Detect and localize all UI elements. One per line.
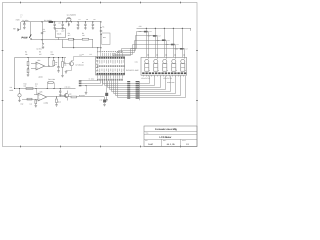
- wire digit4 select: [115, 45, 176, 59]
- wire digit4 common: [173, 28, 174, 29]
- wire digit2 common: [155, 28, 156, 29]
- U1 inner pin labels: [96, 60, 99, 63]
- capacitor C8: [92, 22, 94, 24]
- svg-text:4k7: 4k7: [176, 44, 178, 46]
- digit 2 segments: [154, 59, 158, 63]
- wire OSC2: [81, 80, 101, 83]
- wire digit5 select: [113, 49, 185, 59]
- wire segment h: [118, 76, 186, 98]
- svg-text:POW: POW: [22, 37, 29, 40]
- wire digit3 select: [117, 41, 167, 59]
- svg-text:4k7: 4k7: [149, 31, 151, 33]
- connector body: [139, 81, 141, 100]
- digit 4 segments: [172, 59, 176, 63]
- svg-text:9V: 9V: [20, 16, 22, 18]
- svg-text:4k7: 4k7: [185, 48, 187, 50]
- svg-text:4k7: 4k7: [167, 40, 169, 42]
- wire segment f: [114, 76, 176, 94]
- svg-text:R16: R16: [139, 31, 142, 33]
- resistor R12: [35, 98, 37, 101]
- svg-text:BT1: BT1: [20, 15, 23, 17]
- capacitor C4: [62, 22, 64, 24]
- reset block S2: [102, 33, 110, 45]
- wire feedback: [48, 58, 50, 67]
- resistor R8: [53, 61, 55, 66]
- connector J1 pin labels: [127, 81, 130, 82]
- svg-text:Fernvale Lines Mfg: Fernvale Lines Mfg: [155, 128, 177, 131]
- svg-text:Y1 4MHz: Y1 4MHz: [89, 79, 95, 81]
- svg-text:R18: R18: [157, 40, 160, 42]
- wire sensor to inverting input: [22, 99, 34, 101]
- U1 top pins: [97, 53, 99, 57]
- resistor R17: [153, 35, 157, 37]
- digit 5 segments: [181, 59, 185, 63]
- wire segment b: [105, 76, 155, 86]
- wire battery to rail: [19, 22, 21, 30]
- wire digit3 common: [164, 28, 165, 29]
- wire left drop: [14, 58, 16, 89]
- resistor R10: [26, 88, 33, 90]
- node +5V: [66, 21, 67, 22]
- svg-text:LCD Meter: LCD Meter: [160, 136, 172, 139]
- wire switch to lower rail: [31, 39, 56, 41]
- resistor R15: [71, 96, 77, 98]
- digit 3 segments: [163, 59, 167, 63]
- wire digit1 select: [122, 32, 149, 59]
- wire regulator gnd: [58, 38, 60, 40]
- wire segment d: [110, 76, 166, 90]
- svg-text:PIC16C71-04/P: PIC16C71-04/P: [126, 69, 139, 72]
- wire segment e: [112, 76, 171, 92]
- U1 bottom pins: [97, 75, 99, 78]
- wire OSC1: [81, 79, 98, 81]
- wire to C12: [77, 96, 105, 98]
- wire segment a: [103, 76, 150, 84]
- wire W3: [15, 88, 76, 90]
- wire segment c: [108, 76, 161, 88]
- wire ref to U1: [93, 47, 101, 49]
- wire divider: [56, 38, 69, 41]
- capacitor C13: [60, 89, 62, 92]
- resistor R6: [27, 62, 29, 66]
- op-amp U2A: [36, 62, 45, 70]
- capacitor C7: [85, 22, 87, 24]
- capacitor C13: [106, 75, 108, 93]
- U1 top pin name band: [97, 57, 99, 59]
- svg-text:Sheet: Sheet: [182, 140, 186, 142]
- wire analog rail W1: [15, 57, 67, 59]
- capacitor C6: [78, 22, 80, 24]
- svg-text:Size: Size: [145, 140, 148, 142]
- svg-text:R110: R110: [175, 48, 178, 50]
- resistor R19: [171, 44, 175, 46]
- wire digit5 common: [182, 28, 183, 29]
- wire op-amp out: [45, 66, 54, 68]
- svg-text:U1: U1: [90, 53, 92, 56]
- voltage regulator U3 78L05: [56, 29, 66, 38]
- resistor R11 feedback loop: [48, 82, 53, 84]
- sheet border frame: [3, 3, 198, 147]
- wire U2B out: [47, 96, 71, 98]
- connector J2 pin labels: [136, 81, 140, 82]
- microcontroller U1: [96, 57, 125, 76]
- title block: [144, 126, 197, 147]
- sensor U4 LM35: [14, 88, 15, 89]
- U1 left pin labels: [96, 57, 98, 58]
- svg-text:Draft: Draft: [148, 143, 153, 146]
- transistor Q6: [64, 93, 68, 97]
- wire segment g: [116, 76, 181, 96]
- wire +9V top rail: [21, 21, 101, 23]
- resistor R16: [144, 31, 148, 33]
- resistor R9: [62, 58, 64, 62]
- capacitor C3: [54, 22, 56, 24]
- wire to U2B input: [36, 89, 38, 95]
- U1 middle pin number row: [97, 65, 99, 67]
- resistor R18: [162, 39, 166, 41]
- digit 1 segments: [145, 59, 149, 63]
- wire AN1: [81, 80, 103, 85]
- wire digit1 common: [146, 28, 147, 29]
- resistor R7: [27, 69, 29, 73]
- wire digit2 select: [119, 36, 158, 59]
- zener D2: [42, 40, 44, 43]
- +5V rail for drivers: [137, 28, 192, 30]
- display bottom pins: [143, 75, 145, 76]
- wire ref: [62, 40, 64, 48]
- display module DS1: [141, 57, 187, 75]
- U1 bottom pin name band: [97, 73, 99, 75]
- display pin name row: [142, 72, 144, 74]
- svg-text:R19: R19: [166, 44, 169, 46]
- capacitor C10: [58, 58, 60, 67]
- resistor R17: [27, 98, 32, 100]
- capacitor C2: [42, 22, 44, 40]
- svg-text:R17: R17: [148, 36, 151, 38]
- resistor R110: [180, 48, 184, 50]
- border zone ticks: [20, 2, 22, 4]
- svg-text:Jul 4, 95: Jul 4, 95: [166, 143, 175, 146]
- svg-text:4k7: 4k7: [158, 36, 160, 38]
- op-amp U2B: [38, 93, 47, 101]
- capacitor C12: [104, 97, 106, 99]
- resistor R13: [56, 97, 58, 99]
- resistor R1 pullup: [100, 22, 102, 53]
